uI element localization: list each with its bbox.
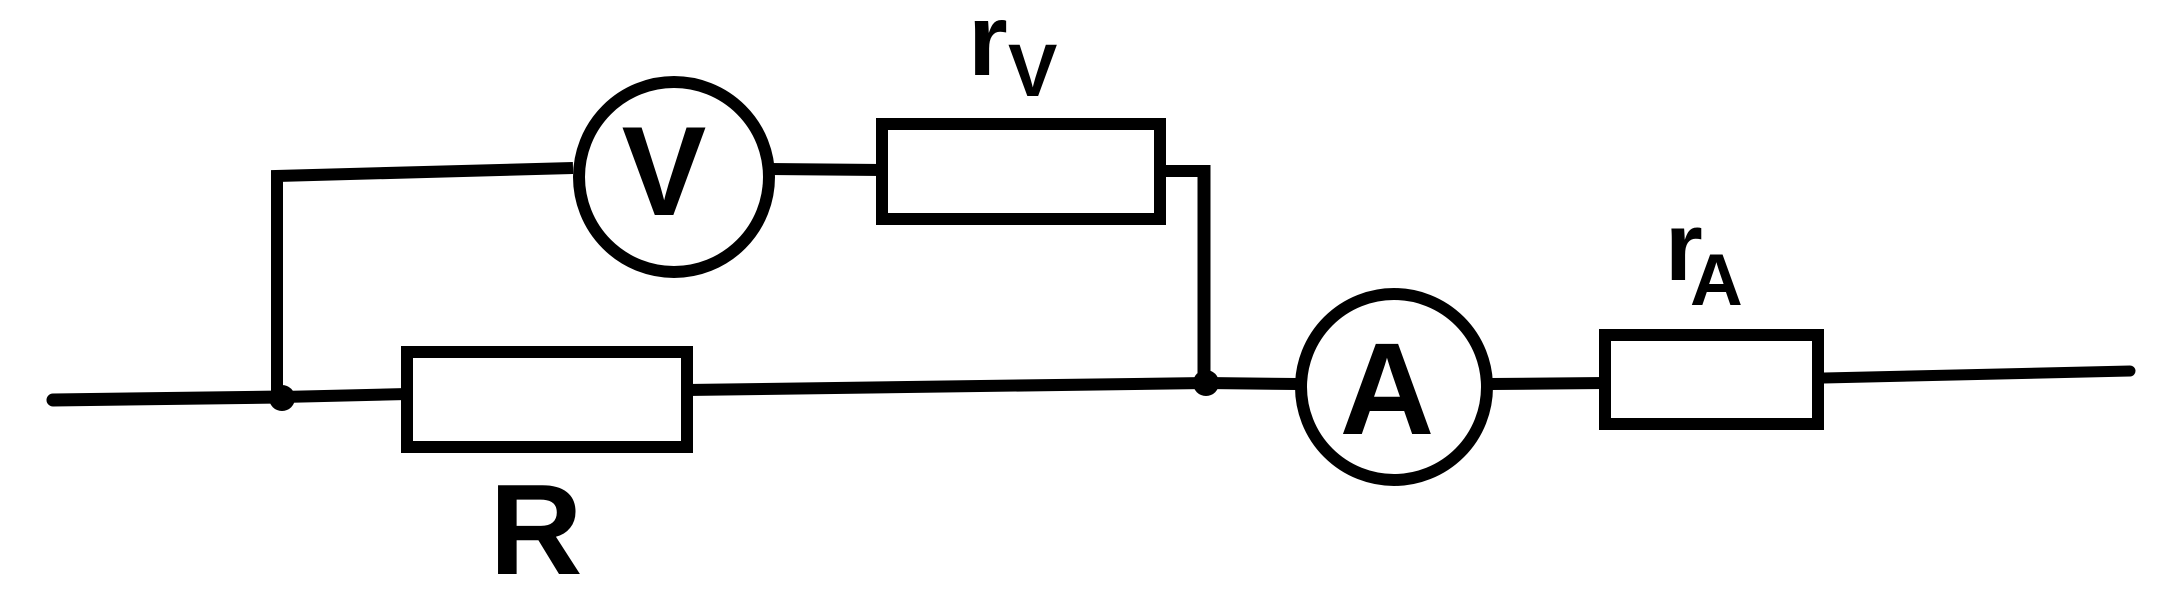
svg-text:A: A xyxy=(1340,315,1435,462)
wire: resistor R to node B xyxy=(687,383,1206,390)
svg-text:V: V xyxy=(1008,29,1057,112)
wire: ammeter to rA xyxy=(1491,383,1605,384)
resistor R body xyxy=(407,352,687,447)
ammeter A1 circle xyxy=(1301,294,1487,480)
svg-text:A: A xyxy=(1690,240,1743,321)
wire: vertical riser from node A to voltmeter branch xyxy=(277,168,573,397)
wire: node A to resistor R xyxy=(282,394,407,397)
svg-text:V: V xyxy=(622,100,707,242)
svg-text:R: R xyxy=(489,458,582,602)
wire: rV to right riser xyxy=(1166,165,1210,177)
wire: voltmeter to rV xyxy=(769,169,882,170)
wire: right lead xyxy=(1824,371,2130,378)
wire: node B to ammeter xyxy=(1206,383,1297,384)
node A (junction dot left) xyxy=(269,385,295,411)
resistor rA body xyxy=(1605,335,1818,424)
svg-text:r: r xyxy=(968,0,1008,97)
voltmeter V1 circle xyxy=(579,82,769,272)
wire: left lead xyxy=(53,397,281,400)
resistor rV body xyxy=(882,124,1160,219)
node B (junction dot right) xyxy=(1193,370,1219,396)
wire: right riser down to node B xyxy=(1198,165,1211,383)
